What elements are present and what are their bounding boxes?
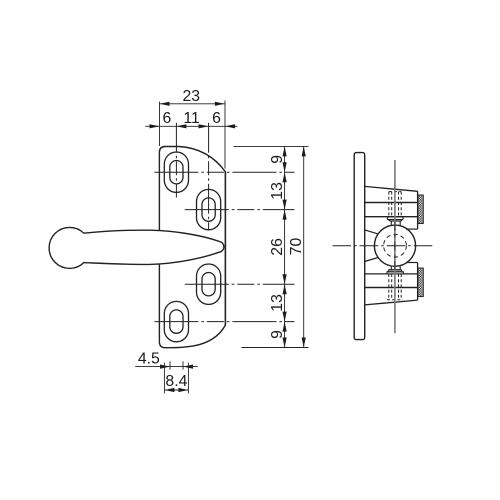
hole 4 outer bbox=[164, 301, 188, 341]
hidden screw top dashed bbox=[389, 192, 401, 217]
side view body top slant edge bbox=[365, 186, 418, 191]
dimension line 70 bbox=[303, 146, 305, 347]
hole centerline H2 bbox=[185, 209, 295, 211]
bottom collar gray head bbox=[388, 270, 403, 272]
hole column centerline V1 bbox=[175, 123, 177, 198]
hole column centerline V2 bbox=[208, 123, 210, 231]
svg-text:9: 9 bbox=[269, 155, 286, 164]
hole 3 outer bbox=[197, 264, 221, 304]
svg-text:6: 6 bbox=[163, 110, 172, 127]
dimension line 6 11 6 bbox=[145, 125, 237, 127]
extension line right of 23 dim bbox=[224, 101, 226, 169]
svg-text:4.5: 4.5 bbox=[138, 351, 160, 368]
side view mounting plate edge bbox=[354, 153, 365, 340]
side view gray vertical centerline bbox=[394, 160, 396, 333]
hole 1 inner slot bbox=[170, 161, 183, 184]
top collar bar bbox=[387, 217, 403, 220]
right ledge top bbox=[406, 228, 418, 230]
top collar step bbox=[388, 220, 402, 222]
dimension line 23 bbox=[160, 103, 225, 105]
svg-text:13: 13 bbox=[269, 182, 286, 200]
svg-text:11: 11 bbox=[183, 110, 200, 127]
dimension line 4.5 bbox=[135, 366, 198, 368]
hole centerline H3 bbox=[185, 283, 295, 285]
extension lines of 8.4 dim bbox=[163, 363, 165, 394]
chain dimension line 9 13 26 13 9 bbox=[284, 146, 286, 347]
bottom extension line of 70 chain bbox=[242, 347, 309, 349]
top extension line of 70 chain bbox=[234, 145, 309, 147]
right ledge bottom bbox=[406, 262, 418, 264]
hole 1 outer bbox=[164, 152, 188, 192]
crank lever handle knob bbox=[49, 227, 90, 268]
side view bottom boss lower line bbox=[365, 287, 418, 289]
front view mounting plate outline bbox=[159, 147, 225, 348]
hub cone line top bbox=[365, 230, 378, 234]
svg-text:6: 6 bbox=[212, 110, 221, 127]
hole 3 inner slot bbox=[202, 273, 215, 296]
svg-text:26: 26 bbox=[269, 238, 286, 256]
hole centerline H1 bbox=[154, 171, 294, 173]
side view body right edge top bbox=[417, 191, 419, 229]
side view body right edge bottom bbox=[417, 263, 419, 301]
hub dashed circle bbox=[384, 234, 407, 257]
crank lever handle arm bbox=[84, 230, 224, 264]
extension line left of 23 dim bbox=[159, 102, 161, 146]
svg-text:23: 23 bbox=[183, 88, 201, 105]
hub cone line bottom bbox=[365, 258, 378, 262]
bottom collar neck lines bbox=[390, 266, 392, 270]
hole 4 inner slot bbox=[170, 310, 183, 333]
svg-text:9: 9 bbox=[269, 330, 286, 339]
side view top boss upper line bbox=[365, 202, 418, 204]
svg-text:70: 70 bbox=[288, 238, 305, 256]
hole 2 outer bbox=[197, 189, 221, 229]
dimension line 8.4 bbox=[164, 389, 188, 391]
pivot hub circle bbox=[374, 225, 415, 266]
hidden screw bottom dashed bbox=[387, 274, 403, 300]
knurled screw head top bbox=[418, 195, 423, 224]
bottom collar bar bbox=[387, 272, 403, 274]
side view bottom boss upper line bbox=[365, 273, 418, 275]
svg-text:8.4: 8.4 bbox=[165, 373, 187, 390]
svg-text:13: 13 bbox=[269, 294, 286, 312]
side view body bottom slant edge bbox=[365, 300, 418, 305]
tick extension lines of 4.5 dim bbox=[169, 361, 171, 369]
hole 2 inner slot bbox=[202, 198, 215, 221]
side view top boss lower line bbox=[365, 216, 418, 218]
hole centerline H4 bbox=[154, 321, 294, 323]
knurled screw head bottom bbox=[418, 268, 423, 297]
side view horizontal centerline bbox=[333, 245, 433, 247]
hub vertical dash-dot centerline bbox=[394, 222, 396, 270]
plate right edge over lever tip bbox=[224, 172, 226, 325]
